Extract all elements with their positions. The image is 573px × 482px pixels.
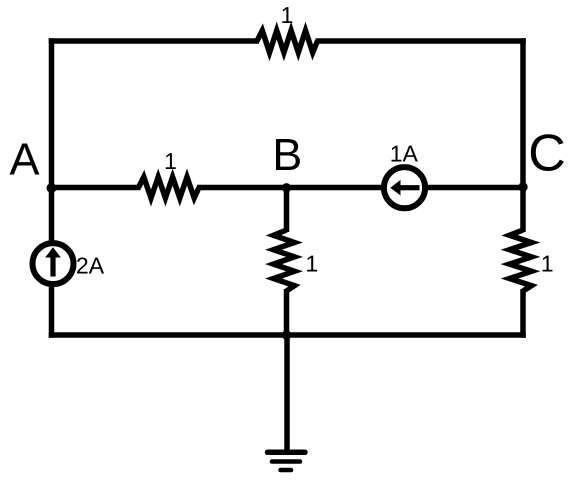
resistor 1 (middle branch at B) bbox=[274, 230, 295, 291]
node label A bbox=[10, 144, 40, 175]
value label 2A (current source) bbox=[77, 257, 104, 273]
wire: node A down to current source 2A bbox=[49, 188, 55, 241]
current source 2A arrow (up) bbox=[45, 247, 61, 276]
current source 2A (circle) bbox=[33, 243, 74, 284]
node A junction dot bbox=[47, 183, 57, 193]
wire: node B down to resistor bbox=[284, 188, 290, 233]
wire: left rail top (node A up to top-left corner) bbox=[49, 38, 55, 190]
value label 1A (current source) bbox=[391, 146, 417, 162]
wire: middle, node B to current source 1A bbox=[287, 185, 382, 191]
node C junction dot bbox=[518, 182, 527, 191]
wire: current source 2A down to bottom-left corner bbox=[49, 287, 55, 338]
value label 1 (B branch resistor) bbox=[307, 256, 317, 272]
wire: middle, current source 1A to node C bbox=[428, 185, 523, 191]
node B junction dot bbox=[282, 183, 291, 192]
wire: middle, node A to resistor A-B bbox=[52, 185, 141, 191]
wire: bottom junction down to ground bbox=[284, 335, 290, 450]
node label C bbox=[531, 134, 564, 171]
wire: right rail, node C down to resistor bbox=[520, 188, 526, 233]
wire: middle resistor down to bottom junction bbox=[284, 289, 290, 335]
wire: top side, right of resistor bbox=[316, 38, 526, 44]
wire: top side, left of resistor bbox=[49, 38, 259, 44]
wire: right resistor down to bottom-right corner bbox=[520, 289, 526, 338]
bottom wire junction dot bbox=[282, 330, 291, 339]
wire: bottom side, center junction to right corner bbox=[287, 332, 526, 338]
value label 1 (C branch resistor) bbox=[543, 256, 553, 272]
resistor 1 (right branch at C) bbox=[510, 230, 532, 291]
node label B bbox=[276, 139, 300, 170]
ground symbol bbox=[268, 452, 306, 470]
value label 1 (top resistor) bbox=[282, 7, 292, 23]
wire: bottom side, left corner to center junction bbox=[49, 332, 287, 338]
wire: right rail from top corner down to node C bbox=[520, 38, 526, 190]
resistor 1 (between A and B) bbox=[139, 177, 200, 198]
value label 1 (A-B resistor) bbox=[166, 153, 176, 169]
wire: middle, resistor to node B bbox=[197, 185, 287, 191]
current source 1A (circle) bbox=[384, 167, 425, 208]
resistor 1 (top, between A and C) bbox=[257, 31, 318, 53]
current source 1A arrow (left) bbox=[390, 180, 419, 196]
